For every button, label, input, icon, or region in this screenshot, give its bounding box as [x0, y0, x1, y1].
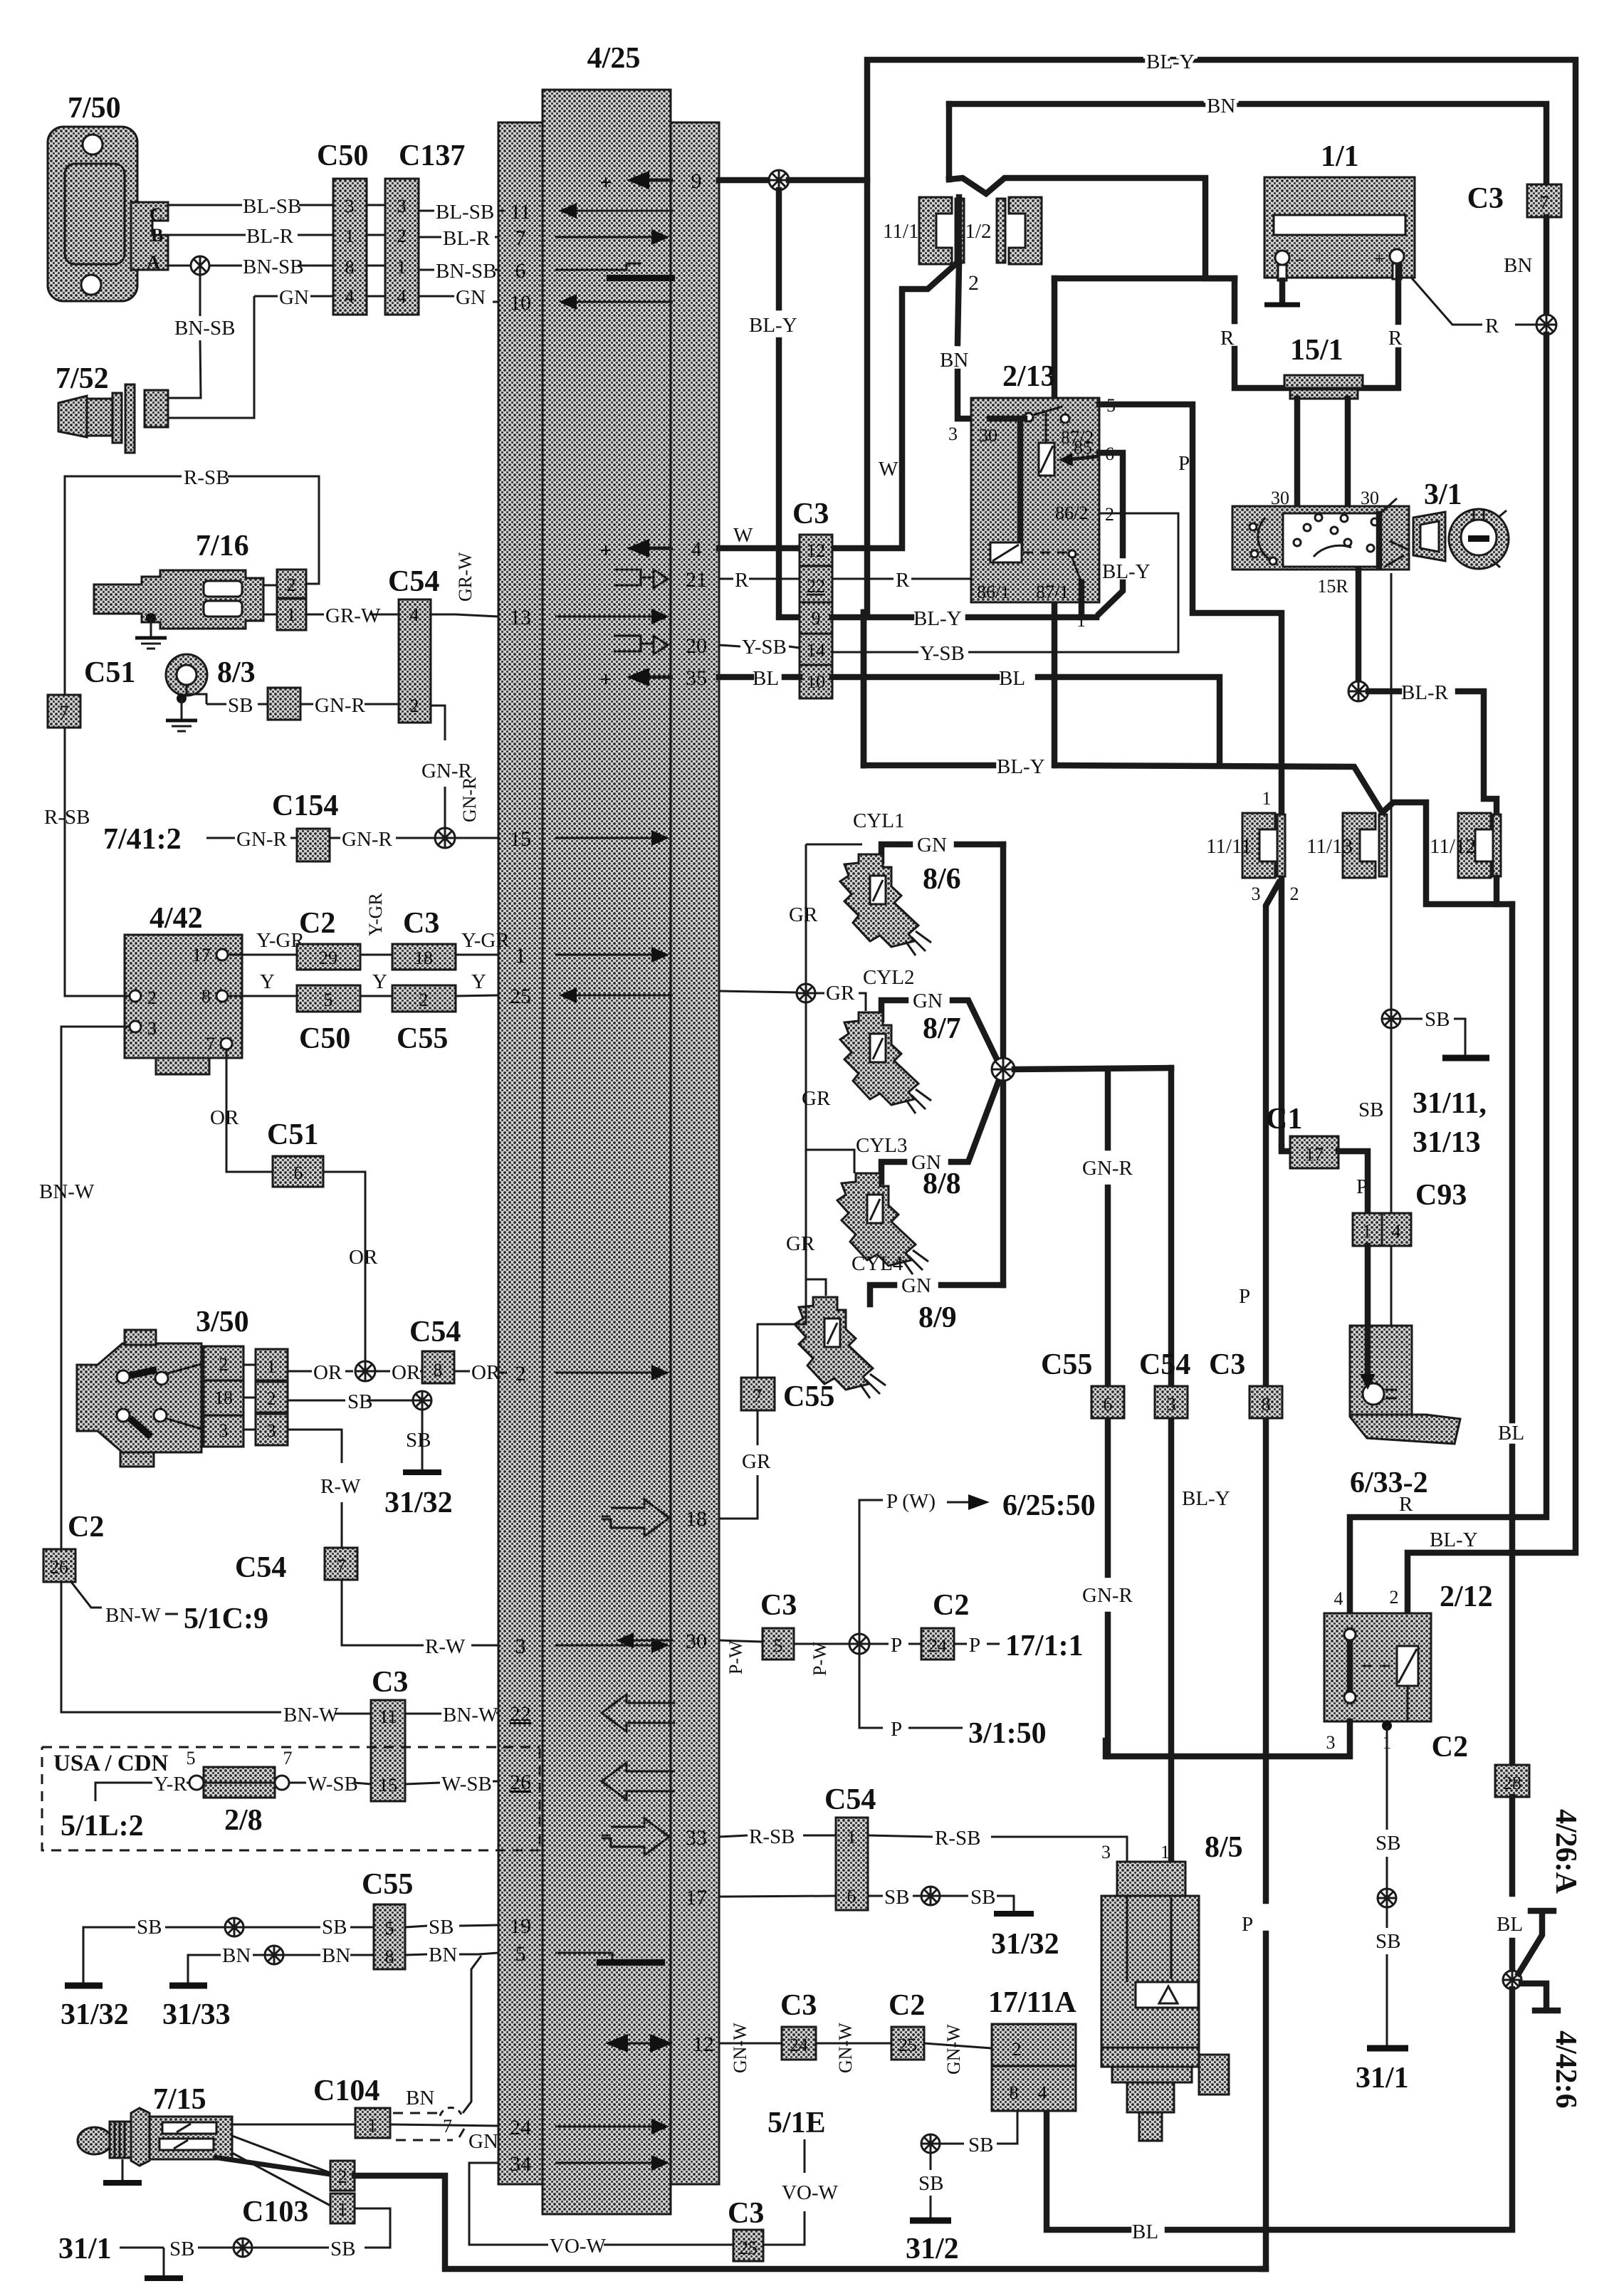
wire BL 11/12 down [1497, 904, 1524, 1765]
wire SB pin 17 to C54-6 [719, 1896, 836, 1897]
svg-text:6: 6 [294, 1163, 303, 1183]
svg-text:Y: Y [372, 970, 387, 993]
svg-text:2/12: 2/12 [1440, 1581, 1493, 1613]
svg-text:BN: BN [429, 1944, 457, 1966]
svg-text:8/9: 8/9 [918, 1301, 957, 1334]
connector box SB/GN-R [268, 688, 300, 720]
svg-text:6/25:50: 6/25:50 [1002, 1489, 1096, 1522]
wire Y-R to fuse 2/8 [140, 1773, 190, 1796]
ground 31/32 left [61, 1927, 135, 2031]
wire BL C2-28 to junction [1497, 1797, 1523, 1971]
svg-text:15: 15 [379, 1775, 397, 1796]
svg-text:7: 7 [1540, 192, 1549, 213]
svg-text:GR-W: GR-W [325, 604, 381, 627]
svg-text:2: 2 [1012, 2039, 1022, 2060]
svg-text:C3: C3 [372, 1666, 408, 1699]
svg-text:7: 7 [443, 2116, 452, 2137]
svg-text:25: 25 [739, 2238, 758, 2258]
svg-text:+: + [599, 539, 612, 562]
svg-text:3: 3 [267, 1420, 276, 1441]
svg-text:4: 4 [1038, 2082, 1047, 2103]
wire GN-R 7/41:2 to C154 [226, 828, 297, 851]
wire GR-W C54 to pin 13 [431, 552, 498, 617]
svg-text:BL-Y: BL-Y [1182, 1487, 1230, 1510]
svg-text:GN-R: GN-R [236, 828, 288, 851]
connector C2 pin 26 [43, 1549, 75, 1582]
svg-text:Y-SB: Y-SB [920, 642, 965, 665]
wire SB ignition down [1390, 573, 1393, 1010]
svg-text:Y-R: Y-R [154, 1773, 187, 1796]
svg-text:GN: GN [901, 1274, 931, 1297]
wire OR C54-8 to pin 2 [454, 1361, 507, 1384]
pin 17 [686, 1886, 707, 1909]
svg-text:P: P [1239, 1285, 1250, 1308]
junction SB [1382, 1010, 1400, 1028]
svg-text:+: + [599, 171, 612, 194]
wire GR bus down to C55-7 [758, 1279, 806, 1378]
connector C55 pins 5/8 [374, 1904, 405, 1969]
wire P C2-24 to 17/1:1 [954, 1630, 1084, 1662]
svg-text:GR: GR [742, 1450, 771, 1473]
svg-text:GN-R: GN-R [342, 828, 393, 851]
svg-text:4: 4 [397, 286, 407, 307]
wire R C3-22 to 2/13 pin 4 [832, 569, 971, 592]
wire Y-SB pin20 to C3-14 [719, 636, 800, 659]
wire P through 11/11 to C1 [1282, 1146, 1290, 1151]
wire GN bus vertical [1000, 844, 1007, 1285]
svg-text:8/7: 8/7 [923, 1012, 961, 1045]
wire BL-Y junction down to C3-9 [749, 190, 800, 617]
wire P drop pin3 11/11 [1239, 883, 1279, 2269]
pin 34 [510, 2152, 669, 2176]
wire R 2/12 pin3 to GN-R rail [1106, 1721, 1350, 1756]
svg-text:C104: C104 [313, 2075, 379, 2107]
svg-text:33: 33 [686, 1826, 707, 1850]
svg-text:9: 9 [691, 169, 702, 193]
junction P [849, 1634, 869, 1654]
svg-text:17: 17 [686, 1886, 707, 1909]
svg-text:GN: GN [913, 990, 943, 1012]
label C55 [362, 1868, 413, 1901]
svg-text:C3: C3 [1209, 1348, 1245, 1381]
svg-text:SB: SB [1376, 1930, 1400, 1953]
junction GN injectors [992, 1058, 1015, 1081]
fuse 2/8 [187, 1748, 293, 1837]
wire GN-R drop to R rail [1082, 1069, 1133, 1756]
svg-text:11/12: 11/12 [1430, 835, 1476, 858]
svg-text:31/32: 31/32 [384, 1487, 453, 1519]
svg-text:SB: SB [330, 2238, 355, 2260]
connector C3 pins 11/15 [371, 1666, 408, 1801]
svg-text:A: A [147, 252, 160, 273]
svg-text:14: 14 [807, 640, 825, 661]
svg-text:C2: C2 [68, 1511, 104, 1543]
junction SB [413, 1391, 431, 1410]
svg-text:C: C [150, 204, 163, 225]
svg-text:85: 85 [1074, 437, 1092, 458]
connector C54 pin 8 [409, 1316, 461, 1383]
svg-text:P: P [969, 1634, 980, 1657]
svg-text:GN-W: GN-W [835, 2023, 856, 2073]
svg-text:10: 10 [807, 671, 825, 692]
svg-text:BL-Y: BL-Y [1102, 560, 1151, 583]
wire SB 17/11A-8 to ground 31/2 [906, 2111, 1017, 2265]
wire BL-Y horizontal to 11/13 [864, 612, 1381, 811]
svg-text:GN-R: GN-R [1082, 1584, 1133, 1607]
wire BN-SB down to 7/52 [168, 275, 235, 398]
svg-text:R: R [896, 569, 910, 592]
svg-text:31/13: 31/13 [1413, 1126, 1481, 1159]
svg-text:12: 12 [807, 540, 825, 561]
wire BL-SB 7/50 to C50 [168, 195, 333, 218]
wire VO-W C3-25 to 5/1E [763, 2139, 839, 2245]
pin 25 [510, 985, 673, 1008]
ECU 4/25 left bar [498, 122, 543, 2184]
svg-text:SB: SB [169, 2238, 194, 2260]
svg-text:BN-W: BN-W [283, 1704, 339, 1726]
svg-text:31/2: 31/2 [906, 2233, 959, 2265]
svg-text:C54: C54 [1139, 1348, 1190, 1381]
wire R-W C54-7 to pin 3 [342, 1580, 498, 1658]
wire BN branch down to C104-7 [463, 1956, 481, 2113]
svg-text:C154: C154 [272, 790, 338, 822]
connector C3 pin 25 [728, 2197, 764, 2261]
wire Y-GR C2 to C3 [360, 893, 392, 955]
wire BN-W C3-11 to pin 22 [405, 1704, 498, 1726]
svg-text:18: 18 [686, 1507, 707, 1531]
svg-text:31/11,: 31/11, [1413, 1087, 1487, 1120]
relay 2/12 [1324, 1581, 1493, 1753]
ground 31/11 31/13 [1400, 1008, 1489, 1159]
svg-text:Y-GR: Y-GR [461, 929, 510, 952]
svg-text:11: 11 [379, 1707, 397, 1727]
junction BL-Y [769, 170, 789, 190]
wire BL-SB C137 to pin 11 [419, 201, 504, 224]
svg-text:7/16: 7/16 [196, 530, 249, 562]
svg-text:SB: SB [406, 1429, 431, 1452]
svg-text:SB: SB [322, 1916, 347, 1939]
pin 26 [510, 1763, 675, 1800]
ground lead SB to 31/32 [384, 1410, 453, 1519]
wire R-SB pin 33 to C54-1 [719, 1825, 836, 1848]
connector C54 pin 3 [1139, 1348, 1190, 1418]
wire W 11/1 to C3-12 [800, 265, 955, 548]
svg-text:R: R [1220, 327, 1235, 350]
svg-text:2: 2 [515, 1362, 526, 1385]
label C2 [68, 1511, 104, 1543]
svg-text:2: 2 [410, 696, 419, 716]
svg-text:31/1: 31/1 [58, 2233, 112, 2265]
svg-text:C3: C3 [728, 2197, 764, 2230]
wire P-W pin 30 chain [719, 1640, 763, 1674]
wire C103-1 to SB chain [355, 2208, 390, 2248]
wire P C1 to C93 [1338, 1151, 1368, 1213]
connector C3 pin 24 [780, 1989, 817, 2060]
wire Y-GR 4/42 to C2 [228, 929, 305, 955]
junction BL-R [1348, 681, 1368, 701]
stub 4/42:6 [1521, 1983, 1582, 2109]
connector C51 pin 6 [267, 1118, 323, 1187]
svg-text:3: 3 [1167, 1394, 1176, 1415]
svg-text:2: 2 [267, 1388, 276, 1409]
svg-text:OR: OR [349, 1246, 378, 1269]
svg-text:BN-W: BN-W [105, 1604, 161, 1627]
svg-text:2: 2 [1290, 884, 1299, 904]
injector CYL4 8/9 [795, 1252, 1003, 1398]
wire BL-Y junction to top rail [789, 51, 1576, 1613]
wire P junction to C2-24 [869, 1634, 921, 1657]
pin 11 [510, 200, 673, 224]
svg-text:15R: 15R [1317, 576, 1348, 597]
connector 11/2 [955, 197, 1042, 264]
svg-text:BN-SB: BN-SB [436, 260, 496, 283]
wire BN-W 4/42 pin 3 down [39, 1027, 130, 1549]
svg-text:1: 1 [397, 257, 407, 278]
junction BN-SB [191, 256, 209, 275]
svg-text:BL-R: BL-R [246, 225, 294, 248]
svg-text:C3: C3 [403, 907, 439, 940]
pin 30 [616, 1630, 707, 1653]
svg-text:SB: SB [1376, 1832, 1400, 1855]
component 7/15 lambda sond [78, 2083, 232, 2183]
svg-text:19: 19 [510, 1914, 531, 1938]
pin 15 [510, 827, 669, 851]
svg-text:3: 3 [515, 1635, 526, 1658]
wire R-SB C54-1 to 8/5 pin 3 [868, 1827, 1127, 1863]
svg-text:34: 34 [510, 2152, 531, 2176]
svg-text:31/32: 31/32 [991, 1928, 1059, 1961]
wire BN chain to C55-8 [222, 1944, 374, 1967]
wire R junction down to 2/12 [1350, 335, 1546, 1613]
svg-text:12: 12 [693, 2033, 714, 2056]
svg-text:OR: OR [313, 1361, 342, 1384]
svg-text:USA / CDN: USA / CDN [53, 1751, 169, 1776]
svg-text:R: R [1485, 315, 1499, 337]
wire P branch down to 3/1:50 [859, 1654, 1047, 1750]
svg-text:SB: SB [137, 1916, 162, 1939]
label 4/25 [587, 42, 641, 75]
svg-text:BN-W: BN-W [39, 1180, 95, 1203]
svg-text:P (W): P (W) [886, 1490, 936, 1513]
injector CYL1 8/6 [840, 809, 1003, 955]
svg-text:17: 17 [1305, 1144, 1324, 1165]
svg-text:28: 28 [1503, 1773, 1521, 1793]
3/50 pin block [204, 1346, 243, 1447]
svg-text:B: B [151, 225, 163, 246]
svg-text:1: 1 [1262, 788, 1272, 809]
svg-text:SB: SB [884, 1886, 909, 1909]
wire R-SB loop top [65, 466, 319, 584]
junction R battery [1536, 315, 1556, 335]
wire R battery loop to 15/1 [1054, 266, 1403, 388]
svg-text:5: 5 [774, 1635, 783, 1656]
svg-text:2: 2 [1390, 1587, 1399, 1608]
svg-text:P: P [1178, 452, 1190, 475]
wire GN to C50 [254, 286, 333, 309]
wire Y C50 to C55 [360, 970, 392, 996]
svg-text:GN: GN [456, 286, 486, 309]
label 5/1E [767, 2107, 826, 2139]
svg-text:8: 8 [201, 986, 211, 1007]
svg-text:87/1: 87/1 [1036, 582, 1069, 602]
svg-text:C3: C3 [792, 498, 829, 530]
pin 21 [614, 568, 707, 592]
svg-text:31/33: 31/33 [162, 1998, 231, 2031]
svg-text:4/42:6: 4/42:6 [1549, 2030, 1582, 2109]
svg-text:17: 17 [192, 945, 211, 965]
svg-text:26: 26 [510, 1771, 531, 1794]
pin 9 [599, 169, 701, 194]
wire OR 3/50-1 to junction [288, 1361, 353, 1384]
connector pins 2/1 of 7/16 [263, 570, 306, 630]
svg-text:C51: C51 [84, 656, 135, 689]
svg-text:18: 18 [214, 1388, 233, 1408]
wire GN down to 7/52 [168, 296, 254, 418]
svg-text:1: 1 [1363, 1221, 1372, 1242]
svg-text:30: 30 [979, 425, 997, 446]
annotation 5/1C:9 [71, 1582, 268, 1635]
svg-text:2: 2 [419, 990, 429, 1010]
connector 11/13 [1306, 813, 1387, 878]
wire BL junction down to 17/11A [1047, 1989, 1512, 2243]
connector C2 pin 24 [921, 1589, 969, 1660]
connector C2 pin 28 [1432, 1731, 1529, 1797]
svg-text:17/1:1: 17/1:1 [1005, 1630, 1084, 1662]
svg-text:3/1: 3/1 [1424, 478, 1462, 511]
connector C3 pin 8 [1209, 1348, 1282, 1418]
svg-text:1/1: 1/1 [1321, 140, 1359, 173]
connector C3 pin 5 [760, 1589, 797, 1660]
svg-text:BL: BL [1498, 1422, 1524, 1445]
svg-text:GR: GR [826, 982, 855, 1005]
wire OR 4/42 pin 7 to C51-6 [210, 1049, 273, 1172]
svg-text:4/26:A: 4/26:A [1549, 1809, 1582, 1894]
svg-text:GN-W: GN-W [943, 2024, 964, 2075]
connector C55 pin 6 [1041, 1348, 1124, 1418]
svg-text:6/33-2: 6/33-2 [1350, 1467, 1428, 1499]
wire SB C54-6 to ground 31/32 [868, 1886, 1059, 1961]
svg-text:SB: SB [1425, 1008, 1450, 1031]
wire GN junction to GN-R/BL-Y drops [1015, 1068, 1171, 1069]
pin 33 [602, 1818, 707, 1855]
svg-text:17/11A: 17/11A [988, 1986, 1076, 2019]
svg-text:11: 11 [510, 200, 531, 224]
wire GN-R C154 to junction [330, 828, 435, 851]
wire SB C93 to 6/33-2 [1390, 1246, 1393, 1326]
wire W pin4 to C3-12 [719, 524, 800, 548]
svg-text:C55: C55 [397, 1022, 448, 1055]
wire GN-W C2-25 to 17/11A [924, 2024, 992, 2075]
svg-text:7: 7 [206, 1034, 215, 1054]
svg-text:GR: GR [802, 1087, 831, 1110]
svg-text:GN-R: GN-R [1082, 1157, 1133, 1180]
ECU 4/25 right bar [671, 122, 719, 2184]
svg-text:20: 20 [686, 634, 707, 658]
wire GN-R C54-2 down to junction [421, 706, 473, 828]
injector CYL2 8/7 [840, 966, 999, 1113]
connector C54 pin 7 [235, 1548, 357, 1584]
svg-text:C55: C55 [1041, 1348, 1092, 1381]
pin 2 [515, 1362, 670, 1385]
svg-text:2: 2 [338, 2166, 347, 2187]
svg-text:3: 3 [219, 1420, 229, 1441]
connector 11/1 [883, 197, 964, 264]
svg-text:24: 24 [928, 1635, 947, 1656]
wire 7/15 signal to C104 [232, 2124, 355, 2126]
svg-text:P-W: P-W [725, 1640, 746, 1674]
svg-text:5: 5 [515, 1942, 526, 1966]
svg-text:CYL3: CYL3 [856, 1134, 908, 1157]
svg-text:6: 6 [847, 1886, 856, 1907]
wire C104 to pin 24 [390, 2124, 498, 2126]
label C51 [84, 656, 135, 689]
svg-text:BL-Y: BL-Y [1146, 51, 1195, 73]
connector C93 [1353, 1179, 1467, 1246]
svg-text:GR-W: GR-W [455, 552, 476, 602]
wire SB junction to C93-4 [1358, 1028, 1391, 1213]
wire 15R output to junction [1356, 570, 1362, 682]
svg-text:CYL4: CYL4 [852, 1252, 903, 1275]
wire GR-W 7/16 to C54 [306, 604, 399, 627]
wire Y-GR C3 to pin 1 [456, 929, 510, 955]
svg-text:3: 3 [397, 196, 407, 216]
svg-text:Y-SB: Y-SB [742, 636, 787, 659]
svg-text:BL-Y: BL-Y [913, 607, 962, 630]
svg-text:5: 5 [324, 990, 333, 1010]
component 7/50 connector housing [48, 92, 168, 301]
svg-text:5/1L:2: 5/1L:2 [61, 1810, 144, 1842]
USA/CDN dashed region [42, 1747, 540, 1850]
wire P C93 to 6/33-2 [1360, 1246, 1376, 1390]
svg-text:SB: SB [970, 1886, 995, 1909]
wire BL-Y C3-9 to 2/13 pin 1 [832, 607, 1096, 630]
svg-text:8: 8 [385, 1946, 394, 1967]
junction OR [355, 1361, 375, 1381]
svg-text:3: 3 [1101, 1842, 1111, 1862]
svg-text:3: 3 [948, 424, 958, 444]
svg-text:2: 2 [219, 1354, 229, 1375]
svg-text:GR: GR [789, 903, 818, 926]
svg-text:1: 1 [515, 944, 526, 968]
pin 12 [605, 2033, 714, 2056]
wire thin bar to GR junction [719, 991, 797, 992]
svg-text:BN: BN [322, 1944, 350, 1967]
svg-text:R-SB: R-SB [184, 466, 229, 489]
connector C55 pin 2 [392, 985, 456, 1055]
svg-text:W-SB: W-SB [308, 1773, 358, 1796]
svg-text:P: P [1356, 1175, 1368, 1198]
wire OR junction to C54-8 [375, 1361, 422, 1384]
svg-text:BL-R: BL-R [1401, 681, 1449, 704]
component 3/50 throttle switch [77, 1306, 249, 1467]
svg-text:W: W [879, 458, 898, 481]
relay 2/13 [948, 360, 1116, 631]
svg-text:C55: C55 [783, 1380, 834, 1413]
ground battery minus [1264, 281, 1300, 305]
svg-text:CYL1: CYL1 [853, 809, 905, 832]
wire BL-R to 11/12 [1368, 681, 1497, 816]
svg-text:SB: SB [347, 1390, 372, 1413]
wire BN-W C2-26 down to C3-11 [61, 1582, 371, 1726]
wire R pin21 to C3-22 [719, 569, 800, 592]
svg-text:C51: C51 [267, 1118, 318, 1151]
svg-text:CYL2: CYL2 [863, 966, 915, 989]
svg-text:C55: C55 [362, 1868, 413, 1901]
connector C3 pin 18 [392, 907, 456, 970]
svg-text:W-SB: W-SB [441, 1773, 492, 1796]
svg-text:15/1: 15/1 [1290, 334, 1343, 367]
svg-text:4: 4 [691, 538, 702, 561]
